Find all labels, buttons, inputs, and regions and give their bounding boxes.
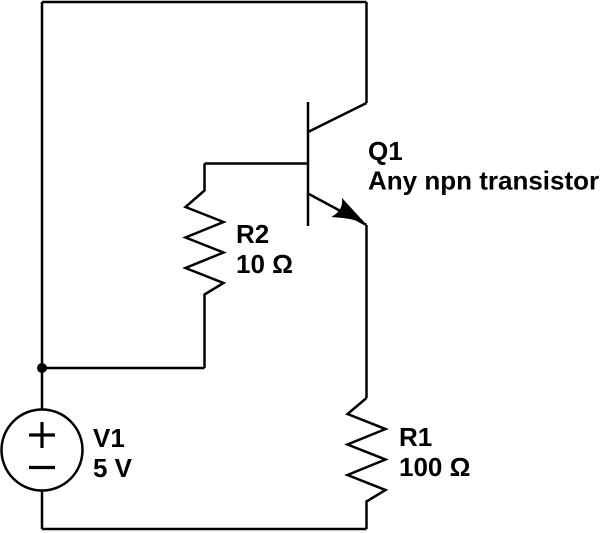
svg-text:Any npn transistor: Any npn transistor [368, 166, 599, 196]
wire emitter vertical [365, 225, 368, 398]
node junction dot [37, 363, 47, 373]
svg-text:100 Ω: 100 Ω [399, 452, 470, 482]
wire left vertical [41, 2, 44, 409]
wire bottom horizontal [42, 528, 367, 531]
wire V1 bottom lead [41, 491, 44, 530]
wire collector vertical [365, 2, 368, 103]
svg-text:R1: R1 [399, 422, 432, 452]
resistor R2 [186, 164, 224, 369]
svg-text:5 V: 5 V [93, 453, 133, 483]
voltage source V1 [2, 410, 83, 491]
wire top horizontal [42, 1, 367, 4]
svg-text:R2: R2 [236, 219, 269, 249]
resistor R1 [348, 398, 386, 529]
transistor Q1 [307, 102, 367, 226]
svg-text:Q1: Q1 [368, 136, 403, 166]
svg-text:10 Ω: 10 Ω [236, 249, 293, 279]
svg-text:V1: V1 [93, 423, 125, 453]
wire base horizontal [205, 162, 308, 165]
wire node horizontal [42, 367, 205, 370]
